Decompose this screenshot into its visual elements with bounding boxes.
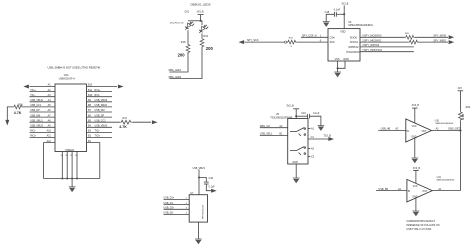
node LED rail junction	[200, 20, 202, 22]
svg-text:USB_DP: USB_DP	[95, 114, 105, 117]
svg-text:GND: GND	[343, 58, 349, 61]
ground	[69, 187, 76, 192]
LED D2	[198, 24, 207, 35]
pin 1 CS# wire SPY_CSF_N	[301, 36, 328, 38]
pin A2 wire DBG_D1	[260, 127, 288, 129]
svg-text:USB TYPE-C CC PINS: USB TYPE-C CC PINS	[407, 228, 432, 231]
svg-text:B10: B10	[88, 94, 93, 97]
svg-text:SHIELD: SHIELD	[65, 149, 74, 152]
svg-text:C2: C2	[311, 155, 315, 158]
svg-text:S4: S4	[75, 155, 77, 157]
svg-text:OUT: OUT	[422, 190, 428, 193]
pin A6 USB_DP	[30, 111, 56, 113]
svg-text:C1: C1	[311, 136, 315, 139]
ground	[323, 22, 330, 27]
svg-text:3V3_B: 3V3_B	[413, 167, 421, 170]
pin 6 SCK wire SPY_SCK with off-page arrow	[245, 41, 285, 43]
svg-text:USB_CC2: USB_CC2	[95, 119, 107, 122]
svg-text:4.7K: 4.7K	[119, 125, 127, 129]
svg-text:R19: R19	[203, 35, 208, 38]
svg-text:TX2+: TX2+	[95, 135, 101, 138]
LED D1	[184, 21, 193, 31]
ground	[334, 72, 341, 77]
input wire USB_5B	[376, 190, 407, 192]
svg-text:USB_D1-: USB_D1-	[164, 202, 174, 205]
pin B1 GND wire to bus	[87, 143, 100, 179]
pin 3 wire USB_D2+	[164, 208, 190, 210]
output wire	[432, 190, 460, 192]
pin B1 wire USB_SEL1	[260, 135, 288, 137]
svg-text:B12: B12	[88, 84, 93, 87]
ground bus wire	[44, 178, 100, 180]
svg-text:A10: A10	[47, 130, 52, 133]
svg-text:U10: U10	[435, 119, 440, 122]
svg-text:USB_CC1: USB_CC1	[30, 104, 42, 107]
svg-text:S1: S1	[61, 155, 63, 157]
svg-text:S2: S2	[66, 155, 68, 157]
connector body CN4	[55, 84, 87, 152]
svg-text:U11: U11	[437, 176, 442, 179]
svg-text:WP#/IO2: WP#/IO2	[348, 46, 359, 49]
svg-text:MAX40002AUK46: MAX40002AUK46	[437, 179, 456, 182]
pin B6 USB_DP	[87, 116, 113, 118]
wire	[201, 33, 203, 37]
svg-text:USB_SBU1: USB_SBU1	[30, 119, 43, 122]
svg-text:SPY_MISO/IO1: SPY_MISO/IO1	[364, 39, 382, 42]
svg-text:DSL-P1UCTD: DSL-P1UCTD	[170, 22, 184, 24]
IC body U7	[189, 195, 207, 222]
svg-text:VCC: VCC	[413, 185, 418, 188]
svg-text:T1S_B: T1S_B	[323, 135, 331, 138]
wire to C19	[199, 178, 206, 183]
svg-text:A1: A1	[311, 127, 315, 130]
pin A2 stub	[308, 148, 310, 150]
wire pull-up vertical	[459, 121, 461, 191]
svg-text:SPY_WP/IO2: SPY_WP/IO2	[364, 44, 380, 47]
svg-text:DBG_D1: DBG_D1	[260, 125, 271, 128]
svg-text:USB_VBUS: USB_VBUS	[30, 125, 43, 128]
svg-text:USB_D1+: USB_D1+	[164, 197, 175, 200]
svg-text:DEBUG_LEDS: DEBUG_LEDS	[191, 3, 211, 7]
node	[295, 115, 297, 117]
svg-text:PRESENCE OF PULLUPS ON: PRESENCE OF PULLUPS ON	[407, 224, 440, 227]
svg-text:A12: A12	[47, 140, 52, 143]
svg-text:USB_SBU2: USB_SBU2	[95, 104, 108, 107]
svg-text:OUT: OUT	[422, 130, 428, 133]
svg-text:S25FL256SAGMFIR01: S25FL256SAGMFIR01	[348, 24, 373, 27]
svg-text:R18: R18	[181, 41, 186, 44]
pin A4 USB_VBUS	[30, 101, 56, 103]
output wire DBG_DET	[432, 130, 461, 132]
svg-text:SPY_MOSI: SPY_MOSI	[433, 35, 446, 38]
svg-text:C16: C16	[301, 112, 306, 115]
wire 3V3 drop	[200, 15, 202, 21]
svg-text:TX1-: TX1-	[30, 94, 35, 97]
svg-text:R20: R20	[405, 33, 410, 35]
svg-text:DBG_LED2: DBG_LED2	[169, 76, 182, 79]
pin A11 RX2+	[30, 137, 56, 139]
wire	[459, 91, 461, 111]
pin C2 stub	[308, 156, 310, 158]
pin B7 USB_DM	[87, 111, 113, 113]
ground	[195, 239, 202, 244]
svg-text:VSS: VSS	[335, 58, 340, 61]
svg-text:3V3_B: 3V3_B	[412, 104, 420, 107]
svg-text:PRTR5V0U2X: PRTR5V0U2X	[203, 204, 205, 219]
svg-text:VDD: VDD	[340, 30, 345, 33]
junction nodes on bus	[61, 178, 63, 180]
svg-text:GND: GND	[292, 161, 298, 164]
svg-text:4.7K: 4.7K	[461, 113, 465, 120]
svg-text:A2: A2	[311, 147, 315, 150]
wire to C18	[336, 13, 344, 15]
IC body U5	[288, 119, 308, 165]
svg-text:RX1-: RX1-	[95, 94, 101, 97]
svg-text:RX1+: RX1+	[95, 89, 102, 92]
svg-text:4.7K: 4.7K	[14, 111, 22, 115]
svg-text:USB_D2+: USB_D2+	[164, 207, 175, 210]
svg-text:SPY_MISO: SPY_MISO	[433, 39, 446, 42]
pin A12 GND wire to bus	[44, 143, 56, 179]
svg-text:COMPARATORS DETECT: COMPARATORS DETECT	[407, 220, 436, 223]
svg-text:USB_VBUS: USB_VBUS	[95, 125, 108, 128]
node	[337, 67, 339, 69]
svg-text:TX1+: TX1+	[30, 89, 36, 92]
svg-text:SCK: SCK	[330, 41, 335, 44]
wire	[187, 30, 189, 43]
svg-text:USB_DP: USB_DP	[30, 109, 40, 112]
pin 2 wire USB_D1-	[164, 204, 190, 206]
pin B11 RX1+	[87, 91, 113, 93]
pin A10 RX2-	[30, 131, 56, 133]
svg-text:C19: C19	[209, 177, 214, 180]
wire to ground	[71, 179, 73, 187]
pin A7 USB_DM	[30, 116, 56, 118]
svg-text:IN: IN	[408, 190, 411, 193]
svg-text:GND: GND	[412, 196, 418, 199]
pin A5 USB_CC1 with resistor R16	[23, 106, 55, 108]
pin B5 USB_CC2 with resistor R17	[87, 121, 120, 123]
svg-text:R23: R23	[289, 38, 294, 40]
pin 1 wire USB_D1+	[164, 198, 190, 200]
svg-text:3V3_B: 3V3_B	[341, 3, 348, 5]
svg-text:SPY_CSF_N: SPY_CSF_N	[302, 35, 317, 38]
svg-text:3V3: 3V3	[458, 88, 463, 90]
svg-text:SPY_MOSI/IO0: SPY_MOSI/IO0	[364, 35, 382, 38]
wire VSS to ground	[337, 61, 339, 72]
svg-text:DBG_LED1: DBG_LED1	[169, 69, 182, 72]
svg-text:SPY_SCK: SPY_SCK	[247, 39, 259, 42]
pin 4 wire USB_D2-	[164, 213, 190, 215]
svg-text:SO/IO1: SO/IO1	[350, 41, 359, 44]
svg-text:DBG_DET: DBG_DET	[448, 128, 460, 131]
svg-text:USB_D2-: USB_D2-	[164, 212, 174, 215]
node	[343, 13, 345, 15]
svg-text:MAX40002AUK46: MAX40002AUK46	[436, 122, 455, 125]
wire	[169, 47, 202, 79]
svg-text:3V3_B: 3V3_B	[197, 12, 204, 14]
svg-text:3V3_B: 3V3_B	[286, 104, 294, 107]
pin C1 wire T1S_B with arrow	[308, 138, 329, 140]
ground stub U11	[415, 198, 417, 211]
switch SW2	[290, 150, 297, 152]
svg-text:USB_4B: USB_4B	[381, 128, 391, 131]
svg-text:USB_5B: USB_5B	[378, 188, 388, 191]
ground	[318, 126, 325, 131]
pin B2 TX2+	[87, 137, 113, 139]
node output junction	[459, 129, 461, 131]
svg-text:A11: A11	[47, 135, 52, 138]
svg-text:USB_DM: USB_DM	[30, 114, 40, 117]
svg-text:0.1uF: 0.1uF	[313, 112, 320, 115]
svg-text:USB_VBUS: USB_VBUS	[30, 99, 43, 102]
svg-text:USB_SEL1: USB_SEL1	[260, 133, 273, 136]
pin B8 USB_SBU2	[87, 106, 113, 108]
svg-text:HOLD#/IO3: HOLD#/IO3	[346, 51, 360, 54]
svg-text:CN4: CN4	[64, 75, 69, 77]
wire	[198, 170, 200, 195]
pin B12 wire with off-page arrow	[87, 86, 118, 88]
svg-text:CS#: CS#	[330, 36, 335, 39]
svg-text:DS1: DS1	[185, 12, 190, 14]
input wire USB_4B	[378, 130, 406, 132]
svg-text:TX2-: TX2-	[95, 130, 100, 133]
comparator U11	[407, 179, 432, 202]
svg-text:R17: R17	[123, 117, 128, 120]
comparator U10	[406, 119, 432, 142]
svg-text:S3: S3	[70, 155, 72, 157]
svg-text:0: 0	[291, 46, 293, 48]
node	[198, 176, 200, 178]
svg-text:B11: B11	[88, 89, 93, 92]
svg-text:C18: C18	[325, 11, 330, 14]
wire	[326, 14, 334, 21]
ground	[293, 178, 300, 183]
svg-text:VCC: VCC	[412, 125, 417, 128]
pin A9 USB_VBUS	[30, 126, 56, 128]
svg-text:R24: R24	[466, 106, 471, 109]
switch SW1	[290, 131, 297, 133]
wire to C16	[296, 115, 307, 117]
pin A1 wire with off-page arrow	[30, 86, 56, 88]
svg-text:0.1uF: 0.1uF	[334, 8, 341, 11]
pin A3 TX1-	[30, 96, 56, 98]
wire	[169, 53, 188, 72]
svg-text:USB_VBUS: USB_VBUS	[95, 99, 108, 102]
wire VDD	[343, 5, 345, 28]
wire LED rail	[188, 20, 202, 22]
wire	[295, 109, 297, 119]
pin A2 TX1+	[30, 91, 56, 93]
svg-text:USB4105-GF-A: USB4105-GF-A	[59, 77, 76, 80]
pin B9 USB_VBUS	[87, 101, 113, 103]
svg-text:SPY_PRST/IO3: SPY_PRST/IO3	[364, 49, 382, 52]
pin B4 USB_VBUS	[87, 126, 113, 128]
svg-text:IN: IN	[407, 130, 410, 133]
IC body U6	[328, 29, 360, 61]
pin A1 stub	[308, 128, 310, 130]
svg-text:SI/IO0: SI/IO0	[350, 36, 358, 39]
svg-text:RX2-: RX2-	[30, 130, 36, 133]
pin A8 USB_SBU1	[30, 121, 56, 123]
ground stub U10	[414, 138, 416, 158]
pin GND wire	[197, 222, 199, 239]
wire	[310, 116, 321, 125]
wire with off-page arrow	[206, 184, 211, 191]
pin B10 RX1-	[87, 96, 113, 98]
svg-text:RX2+: RX2+	[30, 135, 37, 138]
node open junction	[284, 41, 286, 43]
svg-text:USB_DM: USB_DM	[95, 109, 105, 112]
pin B3 TX2-	[87, 131, 113, 133]
svg-text:0.1uF: 0.1uF	[209, 185, 216, 188]
svg-text:GND: GND	[411, 136, 417, 139]
svg-text:200: 200	[206, 46, 214, 51]
svg-text:USB_SMB# IS NOT USED (JTAG RES: USB_SMB# IS NOT USED (JTAG RESET#)	[48, 66, 101, 70]
svg-text:200: 200	[178, 52, 186, 57]
